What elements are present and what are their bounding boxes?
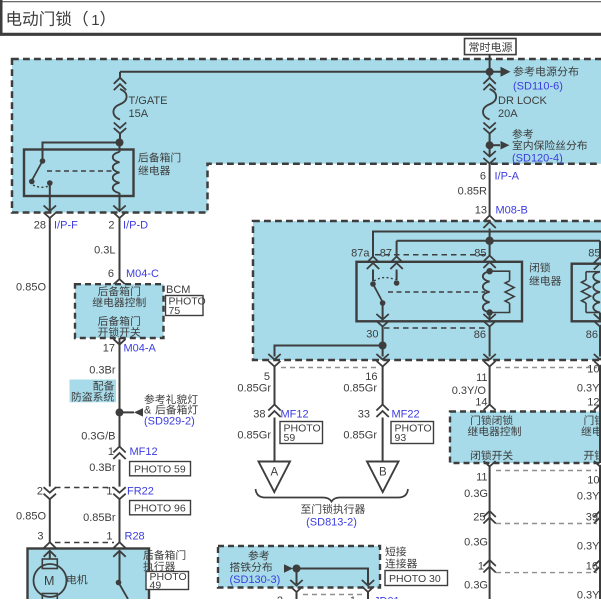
svg-text:59: 59 (284, 432, 296, 444)
svg-text:0.3Y: 0.3Y (577, 491, 600, 503)
band exit connectors 5 / 16 (268, 354, 280, 360)
title text 电动门锁（1） (8, 11, 22, 26)
svg-text:11: 11 (476, 472, 487, 484)
svg-text:0.3G: 0.3G (464, 488, 488, 500)
title left edge bar (0, 0, 3, 35)
svg-text:0.3G/B: 0.3G/B (81, 431, 115, 443)
svg-text:MF22: MF22 (392, 408, 420, 420)
svg-text:0.85Br: 0.85Br (83, 512, 116, 524)
svg-text:I/P-D: I/P-D (123, 220, 148, 232)
svg-text:13: 13 (475, 205, 487, 217)
svg-text:(SD813-2): (SD813-2) (306, 517, 357, 529)
svg-text:MF12: MF12 (130, 446, 158, 458)
svg-text:M04-C: M04-C (126, 268, 159, 280)
svg-text:17: 17 (103, 343, 115, 355)
relay switch contacts (40, 158, 46, 164)
photo box PHOTO 59 (130, 462, 191, 476)
relay coil (119, 143, 121, 153)
svg-text:T/GATE: T/GATE (129, 95, 168, 107)
svg-text:30: 30 (366, 329, 378, 341)
actuator switch (119, 551, 121, 581)
svg-text:0.85R: 0.85R (458, 186, 487, 198)
svg-text:16: 16 (365, 371, 377, 383)
svg-text:0.3Y: 0.3Y (577, 541, 600, 553)
BCM box 后备箱门继电器控制/开锁开关 (75, 284, 164, 338)
svg-text:85: 85 (474, 248, 486, 260)
svg-text:(SD120-4): (SD120-4) (512, 152, 563, 164)
wire pin 86 down across band (489, 327, 491, 357)
wire pin to I/P-F (49, 183, 51, 211)
label 参考电源分布 (SD110-6) (513, 66, 523, 76)
arrow into junction (284, 564, 293, 573)
underbrace to door lock actuators (256, 489, 409, 502)
wire from 常时电源 box down (489, 55, 491, 72)
svg-text:10: 10 (587, 364, 599, 376)
relay contacts and lever (370, 281, 376, 287)
highlight 配备防盗系统 (70, 380, 117, 403)
svg-text:5: 5 (264, 371, 270, 383)
photo box PHOTO 96 (130, 501, 191, 515)
dashed pin line 87-85 (375, 254, 486, 256)
wire out of BCM (119, 338, 121, 447)
svg-text:FR22: FR22 (127, 485, 154, 497)
svg-text:6: 6 (480, 171, 486, 183)
title bar top rule (0, 1, 601, 3)
node junction dot feeding relays (485, 237, 493, 245)
svg-text:87a: 87a (351, 248, 370, 260)
svg-text:86: 86 (474, 329, 486, 341)
svg-text:0.3Y: 0.3Y (577, 383, 600, 395)
wire down crossing band1 (489, 145, 491, 156)
svg-text:86: 86 (586, 329, 598, 341)
right column wire (clipped) (599, 327, 601, 357)
svg-text:11: 11 (476, 372, 487, 384)
wire branch to relay switch (43, 143, 120, 161)
dashed pin line 30-86 (384, 327, 488, 329)
actuator box 后备箱门执行器 (motor) (28, 549, 150, 602)
svg-text:10: 10 (587, 475, 599, 487)
svg-text:1: 1 (106, 485, 112, 497)
svg-text:I/P-A: I/P-A (495, 171, 520, 183)
label 闭锁继电器 (530, 263, 539, 273)
power region band 1 (fuse/relay area) (12, 59, 601, 213)
wire pin to I/P-D (119, 196, 121, 211)
svg-text:I/P-F: I/P-F (54, 220, 78, 232)
svg-text:M04-A: M04-A (124, 343, 157, 355)
svg-text:BCM: BCM (166, 284, 190, 296)
photo box PHOTO 30 (385, 571, 448, 586)
svg-text:0.85Gr: 0.85Gr (343, 430, 377, 442)
label 电机 (67, 574, 76, 584)
label 后备箱门继电器 (138, 153, 148, 163)
power region band 2 (lock relay area) (253, 221, 601, 360)
svg-text:75: 75 (169, 305, 181, 317)
relay box 闭锁继电器 (357, 262, 523, 322)
relay coil + resistor (489, 269, 491, 272)
node junction to fuse dist ref (486, 141, 494, 149)
fuse T/GATE 15A (119, 72, 121, 78)
label 短接连接器 (385, 546, 395, 556)
pin 30 (382, 303, 384, 320)
dashed connector line 5-16 (281, 367, 376, 369)
wire: top bus from T/GATE to power distribution arrow (120, 71, 501, 73)
joint connector box 搭铁分布 (218, 546, 380, 588)
dashed connector line 11-10 (496, 367, 597, 369)
label 至门锁执行器 (SD813-2) (301, 505, 311, 514)
svg-text:1: 1 (350, 595, 356, 599)
photo box PHOTO 49 (146, 572, 189, 590)
label 参考礼貌灯 & 后备箱灯 (SD929-2) (144, 394, 154, 404)
svg-text:JD01: JD01 (374, 596, 400, 600)
svg-text:0.3Br: 0.3Br (89, 365, 116, 377)
svg-text:(SD929-2): (SD929-2) (144, 416, 195, 428)
wire 87a riser (373, 232, 601, 257)
svg-text:6: 6 (108, 268, 114, 280)
svg-text:0.3G: 0.3G (464, 580, 488, 592)
svg-text:0.3G: 0.3G (464, 537, 488, 549)
fuse DR LOCK 20A (489, 72, 491, 78)
node junction dot under pin 30 (382, 327, 384, 357)
svg-text:3: 3 (37, 531, 43, 543)
svg-text:0.85Gr: 0.85Gr (343, 383, 377, 395)
svg-text:0.3Y/O: 0.3Y/O (452, 385, 487, 397)
svg-text:1: 1 (478, 561, 484, 573)
pin 86 (489, 313, 491, 320)
label 参考 室内保险丝分布 (SD120-4) (512, 129, 522, 139)
svg-text:14: 14 (475, 397, 487, 409)
svg-text:87: 87 (380, 248, 392, 260)
triangle connector A (259, 462, 291, 493)
photo box PHOTO 75 (166, 296, 204, 316)
arrow to power distribution (501, 67, 511, 77)
svg-text:M: M (44, 574, 54, 588)
svg-text:PHOTO 59: PHOTO 59 (134, 464, 186, 476)
svg-text:25: 25 (473, 512, 485, 524)
svg-text:DR LOCK: DR LOCK (498, 95, 548, 107)
connector 2 / 1 FR22 inline (55, 487, 114, 489)
wire bus to relay pins 87/85 (397, 240, 600, 242)
relay internal linkage dashed (47, 170, 112, 172)
relay box (right, clipped) (572, 264, 601, 322)
node: hot at all times label box 常时电源 (465, 39, 517, 55)
svg-text:0.3Y: 0.3Y (577, 590, 600, 600)
svg-text:(SD110-6): (SD110-6) (513, 81, 563, 93)
label 后备箱门执行器 (143, 550, 153, 560)
svg-text:2: 2 (37, 485, 43, 497)
photo box PHOTO 93 (391, 422, 434, 444)
connector chevrons into actuator (44, 542, 56, 557)
svg-text:2: 2 (277, 595, 283, 599)
svg-text:R28: R28 (125, 531, 145, 543)
node junction dot at DR LOCK feed (486, 68, 494, 76)
relay coil + resistor (clipped) (586, 271, 600, 273)
svg-text:PHOTO 30: PHOTO 30 (389, 573, 441, 585)
svg-text:0.85O: 0.85O (16, 282, 46, 294)
photo box PHOTO 59 (branch A) (280, 422, 323, 444)
svg-text:0.3L: 0.3L (94, 245, 115, 257)
control box 门锁闭锁继电器控制 / 闭锁开关 (450, 412, 601, 464)
svg-text:A: A (271, 467, 279, 479)
svg-text:20A: 20A (498, 108, 518, 120)
relay box 后备箱门继电器 (24, 150, 134, 197)
wire out of control box (484, 461, 496, 467)
svg-text:0.85Gr: 0.85Gr (237, 430, 271, 442)
svg-text:49: 49 (150, 580, 162, 592)
node junction to courtesy lamp ref (116, 408, 124, 416)
bottom edge connectors (291, 587, 303, 593)
svg-text:38: 38 (253, 408, 265, 420)
svg-text:0.85Gr: 0.85Gr (237, 383, 271, 395)
svg-text:1: 1 (91, 12, 99, 29)
svg-text:M08-B: M08-B (496, 205, 528, 217)
node junction dot above tailgate relay (116, 139, 124, 147)
svg-text:(SD130-3): (SD130-3) (230, 574, 281, 586)
svg-text:PHOTO 96: PHOTO 96 (134, 503, 186, 515)
right column control box texts (clipped) (585, 415, 594, 425)
svg-text:15A: 15A (129, 108, 149, 120)
svg-text:MF12: MF12 (281, 408, 309, 420)
wires to ground connector (297, 569, 369, 585)
svg-text:0.3Br: 0.3Br (89, 462, 116, 474)
motor M (49, 551, 51, 559)
svg-text:2: 2 (108, 220, 114, 232)
svg-text:0.85O: 0.85O (16, 511, 46, 523)
svg-text:1: 1 (106, 531, 112, 543)
triangle connector B (367, 462, 399, 493)
svg-text:B: B (379, 467, 387, 479)
svg-text:28: 28 (34, 220, 46, 232)
svg-text:93: 93 (395, 432, 407, 444)
svg-text:33: 33 (358, 408, 370, 420)
title bottom thick rule (0, 33, 601, 36)
relay linkage dashed (388, 291, 485, 293)
